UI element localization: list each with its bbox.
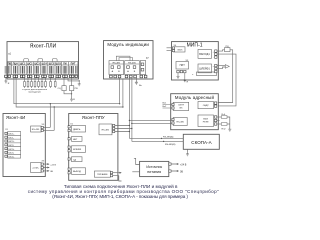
svg-text:0В: 0В xyxy=(180,170,183,173)
svg-text:RS-485: RS-485 xyxy=(113,63,121,65)
svg-text:+24 В: +24 В xyxy=(50,164,56,166)
svg-text:Rн: Rн xyxy=(139,85,143,87)
svg-text:ДВЕРЬ: ДВЕРЬ xyxy=(73,129,81,131)
svg-text:МИП-1: МИП-1 xyxy=(187,42,203,48)
svg-text:Яхонт-ПЛИ: Яхонт-ПЛИ xyxy=(30,44,57,50)
svg-text:RS-485: RS-485 xyxy=(102,129,110,131)
svg-text:ВЫХОД: ВЫХОД xyxy=(73,171,81,173)
svg-text:-СОМ+: -СОМ+ xyxy=(32,167,40,169)
svg-text:X1: X1 xyxy=(70,123,73,125)
svg-text:питания: питания xyxy=(147,170,161,174)
svg-text:Источник: Источник xyxy=(146,165,162,169)
svg-text:+: + xyxy=(213,51,215,53)
svg-text:ПИ: ПИ xyxy=(63,63,67,65)
svg-text:ШС3: ШС3 xyxy=(34,63,40,65)
svg-text:0В: 0В xyxy=(50,171,53,173)
svg-text:ПИТАНИЕ: ПИТАНИЕ xyxy=(97,173,108,176)
svg-text:ПВ: ПВ xyxy=(75,88,79,90)
svg-text:ШС1+: ШС1+ xyxy=(9,134,16,136)
svg-text:ШС4+: ШС4+ xyxy=(9,156,16,158)
svg-text:R: R xyxy=(73,99,75,101)
svg-text:ПИТ: ПИТ xyxy=(180,64,186,67)
svg-text:X7: X7 xyxy=(146,58,150,60)
svg-text:ШС1-: ШС1- xyxy=(9,137,15,139)
svg-text:RS-485: RS-485 xyxy=(32,129,40,131)
svg-text:Rн2: Rн2 xyxy=(222,129,227,131)
svg-text:НЕТ: НЕТ xyxy=(73,139,78,141)
svg-text:а1: а1 xyxy=(8,53,11,56)
svg-text:A: A xyxy=(127,70,129,73)
svg-text:ШС1: ШС1 xyxy=(20,63,26,65)
svg-text:Модуль индикации: Модуль индикации xyxy=(107,42,149,47)
svg-text:X1: X1 xyxy=(5,129,8,131)
svg-text:ШС2+: ШС2+ xyxy=(9,141,16,143)
svg-text:R: R xyxy=(8,83,10,85)
svg-text:=: = xyxy=(192,74,194,76)
svg-text:B: B xyxy=(134,71,136,73)
svg-text:наблюдения: наблюдения xyxy=(28,92,41,94)
svg-text:СИГН: СИГН xyxy=(178,105,184,107)
svg-text:ШС5: ШС5 xyxy=(49,63,55,65)
svg-text:РЕЛЕ: РЕЛЕ xyxy=(203,122,209,124)
svg-text:СКОПА-А: СКОПА-А xyxy=(191,140,211,145)
svg-text:ШС3-: ШС3- xyxy=(9,153,15,155)
svg-text:ШС2: ШС2 xyxy=(27,63,33,65)
svg-text:ПИТ: ПИТ xyxy=(71,63,76,65)
svg-text:ШС6: ШС6 xyxy=(56,63,62,65)
svg-text:Яхонт-4И: Яхонт-4И xyxy=(6,115,25,120)
svg-text:(Яхонт-4И, Яхонт-ППУ, МИП-1, С: (Яхонт-4И, Яхонт-ППУ, МИП-1, СКОПА-А - п… xyxy=(52,194,188,199)
svg-text:ВЫХ: ВЫХ xyxy=(203,119,208,121)
svg-text:СД: СД xyxy=(73,159,77,161)
svg-text:-: - xyxy=(213,57,214,59)
svg-text:ШС4: ШС4 xyxy=(42,62,48,65)
svg-text:ШЛЕЙФ1: ШЛЕЙФ1 xyxy=(199,67,210,70)
svg-text:A: A xyxy=(112,70,114,73)
svg-text:ВЫХ: ВЫХ xyxy=(178,49,183,51)
svg-text:X5: X5 xyxy=(42,124,45,126)
svg-text:Модуль адресный: Модуль адресный xyxy=(175,95,215,100)
svg-text:R: R xyxy=(187,82,189,84)
svg-text:ПД: ПД xyxy=(225,46,229,48)
svg-text:ПЦН: ПЦН xyxy=(13,63,18,65)
svg-text:+24 В: +24 В xyxy=(180,163,187,166)
svg-text:ШС2-: ШС2- xyxy=(9,145,15,147)
svg-text:+: + xyxy=(213,66,215,68)
svg-text:B: B xyxy=(118,71,120,73)
svg-text:ПВ: ПВ xyxy=(8,63,12,65)
svg-text:ВЫХОД1: ВЫХОД1 xyxy=(199,53,210,56)
svg-text:RS-485(B): RS-485(B) xyxy=(165,144,176,146)
svg-text:СЦ: СЦ xyxy=(58,88,62,90)
svg-text:САДР: САДР xyxy=(203,104,210,107)
svg-text:Яхонт-ППУ: Яхонт-ППУ xyxy=(82,115,105,120)
svg-text:ШЛЕЙФ: ШЛЕЙФ xyxy=(73,148,81,151)
svg-text:ВХ: ВХ xyxy=(180,108,183,110)
svg-text:ШС3+: ШС3+ xyxy=(9,149,16,151)
svg-text:RS-485: RS-485 xyxy=(176,121,184,123)
svg-text:RS-485: RS-485 xyxy=(128,63,136,65)
svg-text:RS-485(A): RS-485(A) xyxy=(163,136,174,139)
svg-text:X3: X3 xyxy=(42,160,45,162)
